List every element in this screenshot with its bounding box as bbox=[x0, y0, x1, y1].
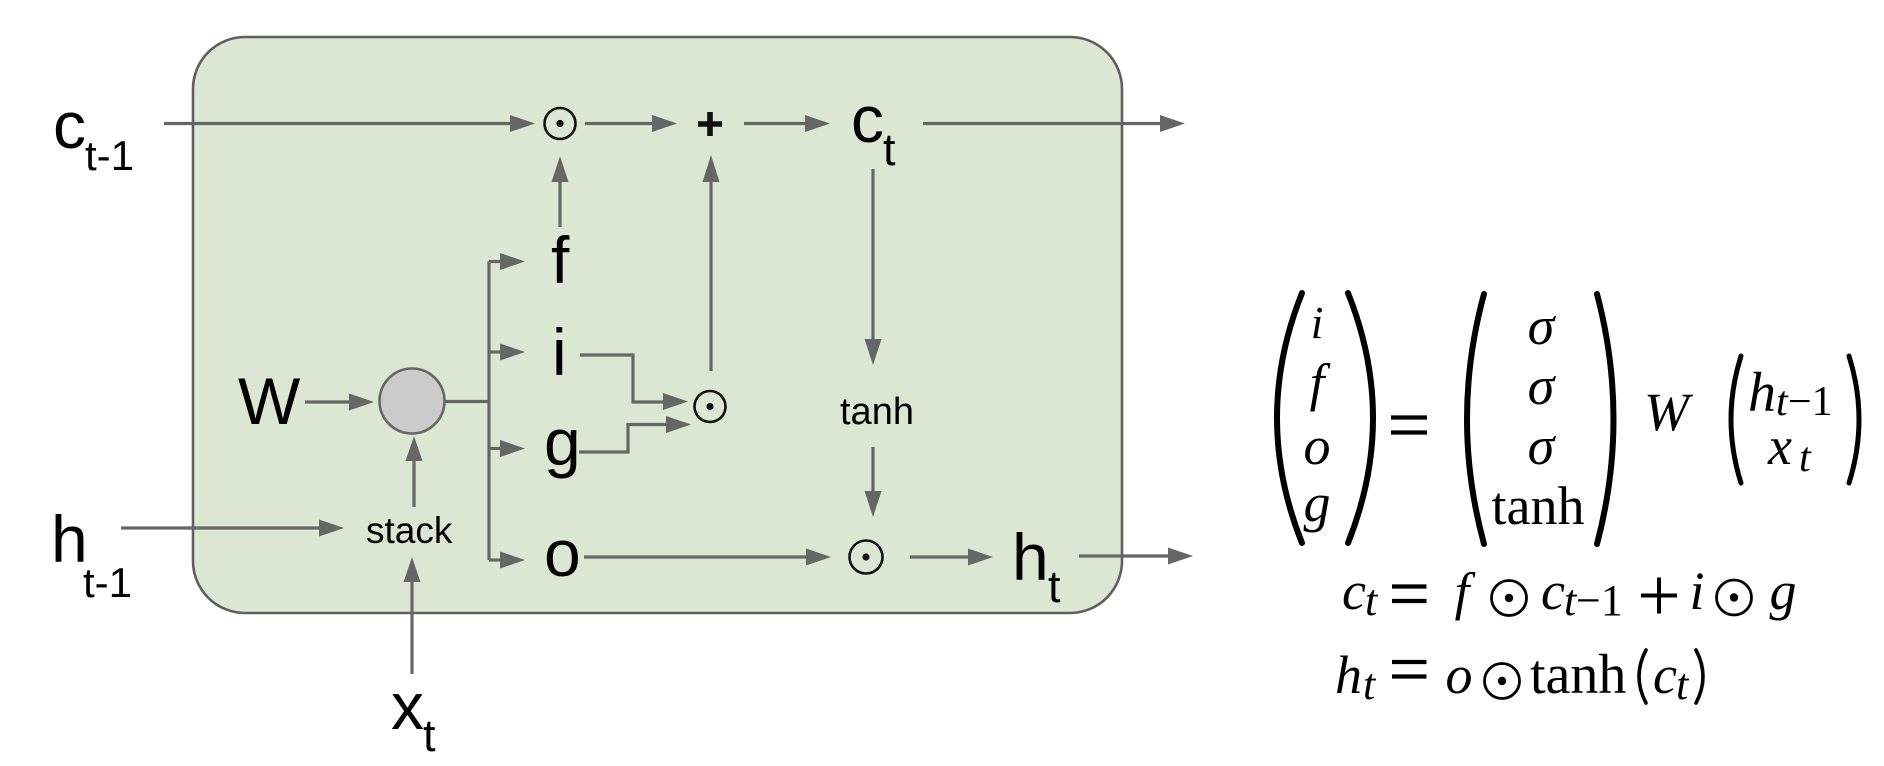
svg-text:t: t bbox=[1048, 561, 1061, 612]
svg-text:t: t bbox=[1676, 660, 1690, 709]
svg-text:stack: stack bbox=[366, 510, 453, 551]
svg-text:c: c bbox=[851, 82, 884, 156]
node c_t label bbox=[851, 82, 896, 175]
svg-text:o: o bbox=[1304, 416, 1331, 476]
stack node (gray circle) bbox=[380, 369, 445, 434]
svg-text:x: x bbox=[391, 669, 424, 743]
wire plus to c_t bbox=[744, 115, 830, 132]
wire h_t out of cell bbox=[1079, 548, 1193, 565]
wire odot3 to h_t bbox=[910, 549, 993, 566]
svg-text:i: i bbox=[1689, 561, 1704, 621]
wire W to stack circle bbox=[305, 394, 374, 411]
branch wire to o bbox=[489, 552, 525, 569]
matrix1 left paren bbox=[1277, 293, 1302, 543]
plus node (cell state sum) bbox=[698, 112, 722, 136]
svg-text:t: t bbox=[1363, 660, 1377, 709]
svg-text:tanh: tanh bbox=[840, 391, 914, 433]
wire tanh down to odot3 bbox=[865, 447, 882, 517]
svg-text:tanh: tanh bbox=[1492, 476, 1585, 536]
wire x_t up to stack bbox=[404, 557, 421, 674]
matrix1 right paren bbox=[1348, 293, 1373, 543]
wire f up to odot1 bbox=[552, 156, 569, 227]
svg-text:h: h bbox=[1335, 645, 1362, 705]
svg-text:−1: −1 bbox=[1576, 576, 1623, 625]
wire stack up to circle bbox=[406, 436, 423, 507]
wire o to odot3 bbox=[584, 549, 831, 566]
wire c_t down to tanh bbox=[865, 169, 882, 365]
svg-text:σ: σ bbox=[1528, 356, 1557, 416]
svg-text:o: o bbox=[1446, 645, 1473, 705]
matrix3 entry x_t bbox=[1767, 416, 1812, 481]
matrix3 right paren bbox=[1849, 356, 1859, 483]
wire odot2 up to plus bbox=[703, 155, 720, 371]
svg-text:h: h bbox=[1748, 362, 1776, 424]
svg-text:g: g bbox=[544, 405, 581, 479]
svg-text:x: x bbox=[1767, 416, 1792, 476]
node h_t label bbox=[1012, 520, 1061, 612]
svg-text:o: o bbox=[544, 516, 581, 590]
matrix3 left paren bbox=[1731, 356, 1741, 483]
LSTM cell box bbox=[193, 37, 1122, 613]
node c_{t-1} label bbox=[53, 88, 134, 179]
trunk wire (gate bus) bbox=[487, 262, 490, 561]
svg-text:g: g bbox=[1304, 473, 1331, 533]
node x_t label bbox=[391, 669, 436, 761]
svg-text:h: h bbox=[1012, 520, 1049, 594]
multiply node odot3 (output gate product) bbox=[850, 541, 883, 574]
wire c_{t-1} into cell bbox=[164, 115, 535, 132]
wire odot1 to plus bbox=[585, 115, 677, 132]
wire i to odot2 bbox=[580, 355, 688, 410]
svg-text:W: W bbox=[1644, 382, 1694, 442]
branch wire to f bbox=[489, 253, 525, 270]
svg-text:c: c bbox=[1653, 645, 1677, 705]
matrix3 entry h_{t-1} bbox=[1748, 362, 1833, 425]
matrix2 right paren bbox=[1597, 294, 1614, 544]
svg-text:t: t bbox=[423, 710, 436, 761]
svg-text:i: i bbox=[1311, 297, 1324, 348]
wire h_{t-1} to stack bbox=[121, 520, 344, 537]
multiply node odot2 (input gate product) bbox=[695, 391, 726, 422]
svg-text:c: c bbox=[1541, 561, 1565, 621]
svg-text:σ: σ bbox=[1528, 296, 1557, 356]
eq2: c_t = f odot c_{t-1} + i odot g bbox=[1342, 561, 1797, 625]
eq3: h_t = o odot tanh(c_t) bbox=[1335, 644, 1703, 709]
svg-text:f: f bbox=[551, 223, 570, 297]
svg-text:c: c bbox=[1342, 561, 1366, 621]
wire g to odot2 bbox=[579, 416, 691, 452]
wire c_t out of cell bbox=[923, 115, 1185, 132]
svg-text:t: t bbox=[1365, 576, 1379, 625]
node h_{t-1} label bbox=[51, 502, 132, 606]
svg-text:σ: σ bbox=[1528, 416, 1557, 476]
svg-text:tanh: tanh bbox=[1530, 644, 1626, 706]
branch wire to g bbox=[489, 440, 525, 457]
branch wire to i bbox=[489, 344, 525, 361]
equals sign eq1 bbox=[1391, 418, 1427, 433]
svg-text:t-1: t-1 bbox=[83, 559, 132, 606]
svg-text:t: t bbox=[883, 124, 896, 175]
svg-text:t: t bbox=[1799, 435, 1812, 481]
multiply node odot1 (forget gate product) bbox=[545, 108, 576, 139]
svg-text:t-1: t-1 bbox=[85, 132, 134, 179]
svg-text:W: W bbox=[238, 364, 301, 438]
svg-text:g: g bbox=[1770, 561, 1797, 621]
svg-text:i: i bbox=[552, 315, 567, 389]
svg-text:c: c bbox=[53, 88, 86, 162]
wire circle to trunk bbox=[444, 400, 489, 403]
svg-text:−1: −1 bbox=[1788, 379, 1833, 425]
matrix2 left paren bbox=[1467, 294, 1484, 544]
